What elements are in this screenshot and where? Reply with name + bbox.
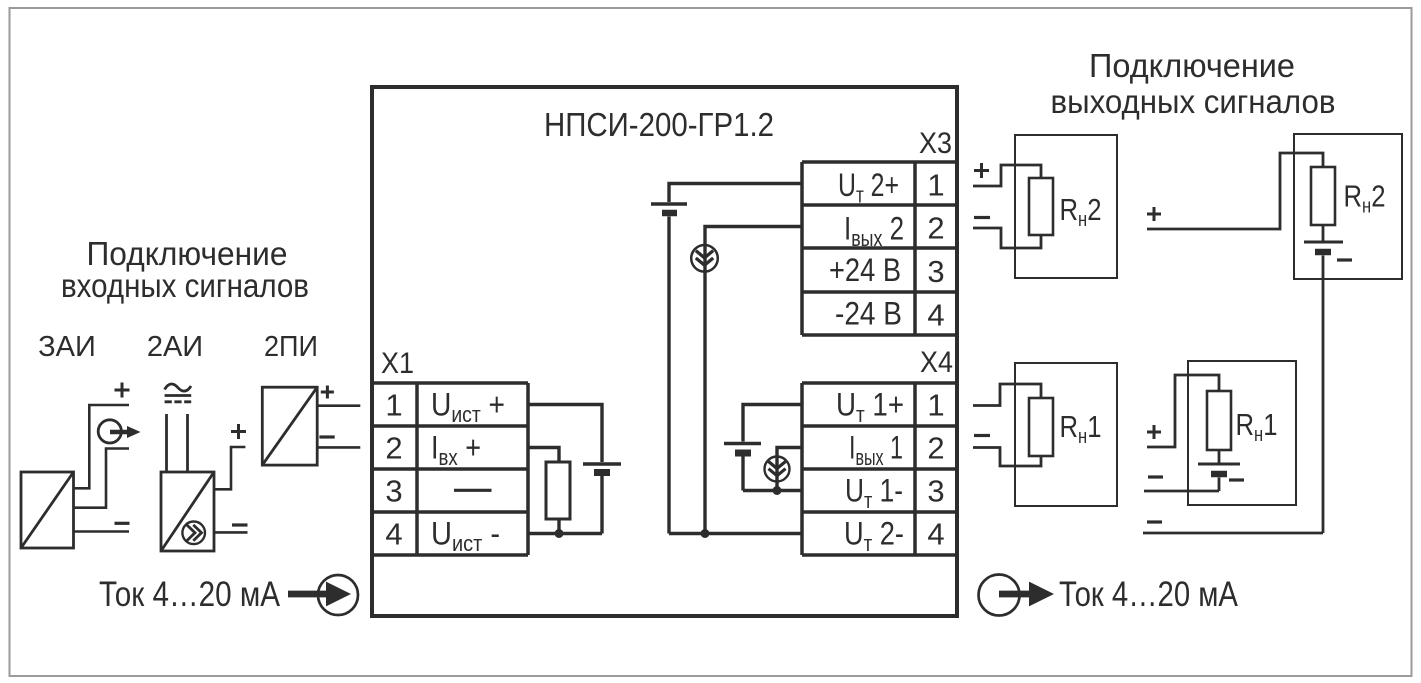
wire battery4 down: [1322, 256, 1325, 534]
svg-text:2: 2: [385, 431, 402, 466]
svg-text:Iвх +: Iвх +: [431, 430, 481, 471]
svg-text:3: 3: [385, 474, 402, 509]
battery4: [1304, 241, 1343, 244]
svg-text:Uт 2+: Uт 2+: [838, 167, 899, 208]
wire resistor to battery4: [1322, 225, 1325, 241]
minus sign bottom wire: [1147, 520, 1162, 523]
connector X1 table: [372, 383, 528, 555]
battery3: [724, 442, 761, 446]
wire box4 plus: [1147, 375, 1219, 447]
wire battery5 to stub: [1144, 478, 1219, 492]
junction dot: [555, 529, 564, 538]
svg-text:Uист -: Uист -: [431, 516, 500, 557]
svg-text:выходных сигналов: выходных сигналов: [1051, 84, 1336, 121]
svg-text:1: 1: [927, 388, 944, 423]
label dash row3: [454, 489, 492, 492]
battery2: [651, 202, 687, 206]
minus sign 2ПИ: [319, 435, 334, 438]
battery input: [583, 462, 621, 466]
svg-text:X1: X1: [381, 347, 414, 380]
svg-text:Rн1: Rн1: [1060, 409, 1102, 448]
svg-text:+24 В: +24 В: [829, 252, 901, 288]
svg-text:Rн2: Rн2: [1060, 192, 1102, 231]
svg-text:Rн1: Rн1: [1236, 407, 1278, 446]
minus sign box4 left: [1148, 475, 1163, 478]
plus sign 2АИ: [231, 424, 246, 439]
wire 2АИ plus: [214, 447, 245, 489]
wire resistor bottom: [557, 519, 560, 534]
wire X4.2 through CS2: [777, 448, 802, 491]
current source CS1: [691, 245, 718, 272]
resistor Rн1 box4: [1207, 391, 1231, 450]
svg-text:Uт 1+: Uт 1+: [836, 387, 904, 428]
wire battery3 to X4.3: [743, 457, 802, 491]
wire 2АИ minus: [214, 531, 248, 534]
svg-text:1: 1: [385, 388, 402, 423]
arrow current right: [999, 591, 1031, 598]
circle current left: [318, 575, 358, 615]
svg-text:4: 4: [927, 517, 944, 552]
svg-text:входных сигналов: входных сигналов: [61, 268, 309, 305]
svg-text:Ток 4…20 мА: Ток 4…20 мА: [99, 575, 281, 614]
svg-text:2ПИ: 2ПИ: [264, 331, 318, 363]
load box 3: [1015, 363, 1117, 506]
wire bottom right: [1143, 532, 1323, 535]
svg-text:1: 1: [927, 168, 944, 203]
wire X1.1 to battery: [528, 405, 602, 463]
svg-text:Uт 2-: Uт 2-: [844, 516, 904, 557]
wire resistor to battery5: [1218, 450, 1221, 463]
wire ЗАИ mid: [74, 449, 130, 508]
wire box3 bottom: [973, 448, 1041, 467]
wire ЗАИ plus: [74, 405, 130, 488]
svg-text:4: 4: [385, 517, 402, 552]
transmitter 2ПИ: [262, 387, 317, 465]
svg-text:Iвых 2: Iвых 2: [844, 211, 904, 252]
minus sign box4 right: [1229, 478, 1244, 481]
plus sign ЗАИ: [115, 383, 130, 398]
svg-text:Ток 4…20 мА: Ток 4…20 мА: [1059, 575, 1239, 614]
plus sign box4: [1147, 425, 1161, 439]
junction dot: [701, 529, 710, 538]
minus sign box3: [974, 434, 990, 437]
arrow current left: [288, 591, 328, 598]
circle current right: [979, 575, 1020, 616]
junction dot: [773, 486, 782, 495]
plus sign box2: [1147, 207, 1161, 221]
battery5: [1198, 463, 1240, 466]
minus sign 2АИ: [232, 523, 248, 526]
transmitter ЗАИ: [21, 472, 74, 548]
resistor Rн2 box2: [1311, 167, 1335, 225]
svg-text:3: 3: [927, 474, 944, 509]
minus sign box2: [1337, 258, 1352, 261]
svg-text:2: 2: [927, 211, 944, 246]
wire box2 plus: [1147, 153, 1323, 229]
wire box3 top: [973, 384, 1041, 406]
wire box1 plus: [973, 165, 1041, 186]
wire ЗАИ minus: [74, 530, 130, 533]
connector X3 table: [802, 162, 957, 335]
connector X4 table: [802, 383, 957, 555]
svg-text:X3: X3: [919, 127, 952, 160]
svg-text:3: 3: [927, 254, 944, 289]
AC/DC symbol 2АИ: [165, 384, 191, 391]
wire 2ПИ minus: [317, 446, 360, 449]
svg-text:Uт 1-: Uт 1-: [845, 473, 903, 514]
wire battery to X1.4: [528, 476, 602, 534]
resistor Rн2 box1: [1029, 178, 1053, 235]
minus sign ЗАИ: [115, 522, 130, 525]
load box 2: [1294, 134, 1402, 279]
svg-text:2АИ: 2АИ: [147, 331, 203, 363]
svg-text:ЗАИ: ЗАИ: [38, 331, 96, 363]
svg-text:Iвых 1: Iвых 1: [849, 430, 903, 471]
svg-text:X4: X4: [920, 346, 953, 379]
plus sign 2ПИ: [321, 386, 334, 399]
wire X4.1 to battery3: [743, 405, 802, 442]
resistor Rн1 box3: [1029, 398, 1053, 456]
current circle ЗАИ: [98, 420, 121, 443]
svg-text:2: 2: [927, 431, 944, 466]
svg-text:-24 В: -24 В: [835, 296, 902, 332]
svg-text:Uист +: Uист +: [431, 387, 505, 428]
minus sign box1: [974, 216, 990, 219]
wire 2ПИ plus: [317, 404, 360, 407]
svg-text:Подключение: Подключение: [1089, 48, 1295, 85]
wire box1 minus: [973, 228, 1041, 248]
wire X3.2 through CS1: [705, 227, 802, 534]
svg-text:НПСИ-200-ГР1.2: НПСИ-200-ГР1.2: [544, 106, 774, 143]
arrow ЗАИ: [110, 430, 129, 434]
wire battery2 to X4.4: [669, 217, 802, 534]
chevron circle 2АИ: [182, 522, 205, 545]
wire 2АИ top leads: [167, 414, 188, 472]
wire X3.1 to battery2: [669, 184, 802, 203]
plus sign box1: [974, 163, 989, 178]
device box НПСИ-200-ГР1.2: [372, 87, 957, 616]
load box 4: [1188, 361, 1296, 505]
wire X1.2 to resistor: [528, 448, 559, 463]
load box 1: [1015, 135, 1117, 278]
svg-text:4: 4: [927, 298, 944, 333]
current source CS2: [765, 457, 790, 482]
resistor input: [546, 462, 570, 519]
svg-text:Rн2: Rн2: [1344, 179, 1386, 218]
transmitter 2АИ: [161, 472, 214, 551]
